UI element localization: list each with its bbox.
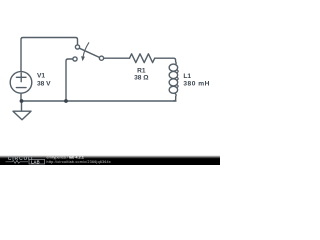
watermark logo LAB box: [29, 159, 45, 164]
switch SW1 throw terminal: [73, 57, 77, 61]
wire resistor to inductor: [155, 58, 176, 64]
inductor L1 coil crossover arcs: [177, 70, 179, 73]
wire switch common to resistor: [104, 57, 130, 59]
svg-text:LAB: LAB: [31, 159, 40, 164]
svg-text:L1: L1: [183, 73, 191, 80]
svg-text:http://circuitlab.com/c/2366jq: http://circuitlab.com/c/2366jq6364x: [47, 160, 111, 164]
svg-text:380 mH: 380 mH: [183, 81, 209, 88]
svg-text:V1: V1: [37, 73, 45, 80]
wire inductor bottom to rail: [174, 93, 176, 101]
node junction switch-rail: [64, 99, 68, 103]
V1 plus sign: [16, 73, 26, 82]
wire top-left vertical + top rail: [21, 38, 78, 72]
wire switch throw to rail: [66, 59, 73, 101]
switch SW1 bar: [79, 48, 99, 57]
wire bottom rail: [21, 100, 176, 102]
svg-text:38 Ω: 38 Ω: [134, 75, 149, 82]
V1 minus sign: [16, 87, 26, 89]
switch SW1 common terminal: [99, 56, 103, 60]
watermark bar: [0, 155, 220, 158]
watermark logo resistor line: [6, 160, 29, 163]
ground symbol: [13, 101, 31, 120]
inductor L1 coil: [169, 64, 178, 71]
switch arrowhead: [81, 56, 85, 61]
wire source bottom to rail: [20, 93, 22, 101]
voltage source V1 circle: [10, 72, 32, 94]
resistor R1: [130, 54, 155, 63]
switch SW1 top terminal: [75, 45, 79, 49]
svg-text:emilyperica / lab 4.2.1: emilyperica / lab 4.2.1: [47, 156, 84, 160]
node junction source-rail: [20, 99, 24, 103]
svg-text:38 V: 38 V: [37, 81, 51, 88]
svg-text:R1: R1: [137, 68, 146, 75]
switch SW1 actuation arrow: [83, 43, 89, 58]
